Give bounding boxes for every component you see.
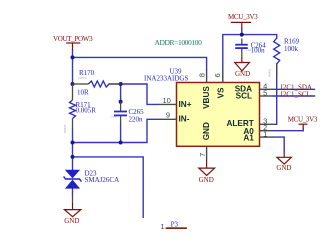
svg-text:SMAJ26CA: SMAJ26CA — [85, 176, 120, 184]
svg-text:IN-: IN- — [179, 115, 190, 124]
svg-text:C04: C04 — [246, 48, 252, 52]
svg-text:MCU_3V3: MCU_3V3 — [228, 13, 258, 21]
svg-text:9: 9 — [166, 111, 170, 120]
svg-text:C04: C04 — [111, 115, 117, 119]
svg-text:7: 7 — [198, 153, 207, 157]
svg-text:100n: 100n — [251, 46, 266, 54]
svg-text:R0402: R0402 — [268, 68, 272, 77]
svg-text:R0025: R0025 — [63, 124, 67, 133]
svg-text:GND: GND — [202, 122, 211, 140]
svg-text:5: 5 — [263, 89, 267, 98]
svg-text:MCU_3V3: MCU_3V3 — [288, 115, 318, 123]
svg-text:8: 8 — [197, 73, 206, 77]
svg-text:GND: GND — [199, 176, 214, 184]
svg-text:10: 10 — [162, 96, 170, 105]
svg-text:IN+: IN+ — [179, 100, 192, 109]
svg-text:1W5%: 1W5% — [78, 76, 87, 80]
svg-text:VBUS: VBUS — [202, 86, 211, 109]
svg-text:ADDR=1000100: ADDR=1000100 — [155, 38, 203, 47]
svg-text:VOUT_POW3: VOUT_POW3 — [53, 35, 93, 43]
svg-text:INA233AIDGS: INA233AIDGS — [144, 74, 188, 82]
svg-text:I2C1_SCL: I2C1_SCL — [281, 90, 311, 98]
svg-text:VS: VS — [216, 87, 225, 98]
svg-text:GND: GND — [64, 217, 79, 225]
svg-text:SCL: SCL — [236, 92, 252, 101]
svg-text:A1: A1 — [243, 133, 254, 142]
svg-text:220n: 220n — [129, 115, 144, 123]
svg-text:0.005R: 0.005R — [76, 106, 97, 114]
svg-text:6: 6 — [213, 73, 222, 77]
svg-text:GND: GND — [235, 70, 250, 78]
svg-text:10R: 10R — [77, 89, 89, 97]
svg-text:100k: 100k — [284, 45, 299, 53]
svg-text:1: 1 — [263, 129, 267, 138]
svg-text:GND: GND — [276, 164, 291, 172]
svg-text:1: 1 — [161, 222, 165, 229]
